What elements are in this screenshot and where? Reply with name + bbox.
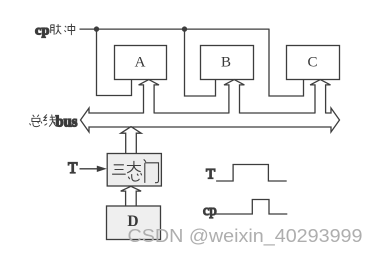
tri-state gate box (三态门) <box>107 154 161 187</box>
waveform T pulse <box>216 165 287 182</box>
bus-to-B hollow arrow <box>224 80 244 115</box>
wire T with solid arrowhead into tri-state gate <box>80 166 107 172</box>
svg-text:B: B <box>221 55 231 71</box>
tri-state gate to bus hollow arrow <box>121 127 141 154</box>
svg-text:C: C <box>307 55 317 71</box>
svg-text:T: T <box>206 166 215 182</box>
bus-to-C hollow arrow <box>310 80 330 115</box>
svg-text:T: T <box>68 160 78 177</box>
svg-text:A: A <box>135 55 146 71</box>
waveform cp pulse <box>216 200 288 215</box>
node junction dot 2 <box>182 26 187 31</box>
D-to-tri-state-gate hollow arrow <box>121 186 141 206</box>
bus (总线) double-arrow band <box>81 108 340 132</box>
wire cp line <box>80 28 270 30</box>
node junction dot 1 <box>94 26 99 31</box>
svg-text:cp: cp <box>203 203 217 219</box>
register C <box>287 46 340 80</box>
wire cp to register A <box>97 29 132 95</box>
wire cp to register C <box>269 29 304 96</box>
bus-to-A hollow arrow <box>139 80 159 115</box>
svg-text:CSDN @weixin_40293999: CSDN @weixin_40293999 <box>128 226 363 247</box>
register D box <box>107 206 161 240</box>
label bus (总线bus) <box>30 114 78 131</box>
svg-text:bus: bus <box>56 114 78 131</box>
register B <box>201 46 254 80</box>
label cp pulse (cp脉冲) <box>35 23 75 38</box>
svg-text:cp: cp <box>35 23 50 38</box>
wire cp to register B <box>185 29 216 96</box>
register A <box>115 46 167 80</box>
